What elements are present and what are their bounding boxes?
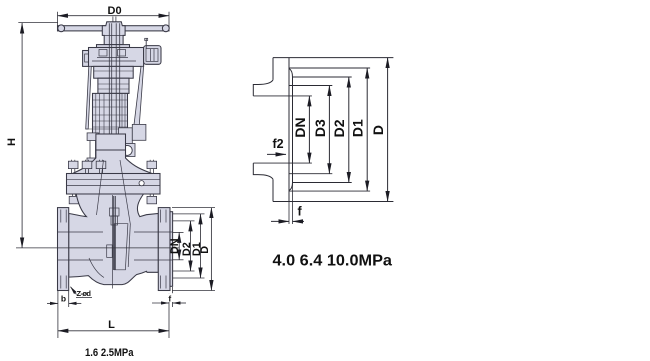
svg-text:D2: D2 [331, 119, 347, 137]
svg-text:DN: DN [292, 117, 308, 137]
svg-text:D3: D3 [312, 119, 328, 137]
svg-text:f2: f2 [273, 137, 284, 151]
svg-text:D: D [199, 246, 211, 254]
svg-text:4.0 6.4 10.0MPa: 4.0 6.4 10.0MPa [273, 252, 393, 269]
svg-text:D: D [370, 125, 386, 135]
svg-text:D1: D1 [350, 119, 366, 137]
svg-text:f: f [298, 205, 303, 219]
svg-text:1.6 2.5MPa: 1.6 2.5MPa [85, 347, 134, 359]
svg-text:D0: D0 [108, 5, 122, 17]
svg-text:b: b [61, 294, 66, 304]
svg-text:f: f [168, 293, 171, 303]
svg-text:L: L [108, 319, 115, 331]
svg-text:H: H [6, 138, 18, 146]
svg-text:Z-ød: Z-ød [77, 289, 92, 298]
svg-text:DN: DN [169, 238, 181, 254]
